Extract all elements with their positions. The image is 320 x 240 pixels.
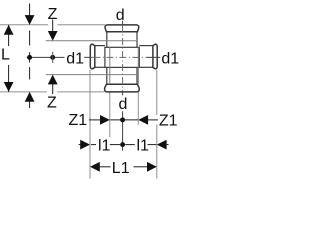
left socket press bead (90, 44, 95, 69)
bottom socket press bead (105, 84, 140, 92)
svg-text:d1: d1 (161, 51, 179, 68)
tick through dot (52, 52, 54, 63)
dimension L arrow down (4, 82, 14, 92)
svg-text:L1: L1 (112, 160, 130, 177)
svg-text:Z: Z (47, 94, 57, 111)
stop line bottom socket (y=74.6) (46, 74, 137, 76)
centerline vertical tick below top d label (122, 21, 124, 25)
bottom socket tube (106, 67, 108, 84)
arrow left to right stop (138, 115, 148, 125)
centerline vertical tick above bottom d label (122, 92, 124, 95)
svg-text:l1: l1 (137, 138, 150, 155)
centerline horizontal solid before right d1 (147, 56, 160, 58)
node dot center reference (50, 55, 55, 60)
stop line right socket inside body (x=138.3) (137, 47, 139, 84)
svg-text:d1: d1 (66, 51, 84, 68)
dimension Z pair line (x=29.6) (29, 4, 31, 18)
arrow left at left end (90, 162, 100, 172)
right socket tube (139, 45, 153, 47)
arrow right to left stop (100, 115, 110, 125)
svg-text:l1: l1 (98, 138, 111, 155)
svg-text:L: L (1, 47, 10, 64)
centerline vertical dashed through fitting (122, 25, 124, 92)
arrow down to top stop line (48, 31, 58, 41)
extension line right stop (x=138.3) (137, 92, 139, 124)
arrow up to bottom stop line (48, 75, 58, 85)
node dot l1 row (120, 142, 125, 147)
dimension Z top leader (52, 20, 54, 34)
dimension l1 row (y=144.6) (79, 144, 83, 146)
extension line left stop (x=109.8) (109, 92, 111, 137)
extension line top end (y=24.8) (0, 24, 48, 26)
left socket tube (95, 45, 105, 47)
right socket press bead (153, 44, 157, 69)
svg-text:d: d (116, 7, 125, 24)
svg-text:d: d (119, 96, 128, 113)
svg-text:Z1: Z1 (69, 112, 88, 129)
arrow up at bottom end (25, 92, 35, 102)
arrow left to right end (157, 140, 167, 150)
extension line right fitting end (x=156.8) upper segment (156, 70, 158, 115)
svg-text:Z1: Z1 (159, 112, 178, 129)
centerline vertical solid through bottom dots (122, 111, 124, 150)
centerline horizontal solid before fitting (84, 56, 89, 58)
node dot Z1 row (120, 117, 125, 122)
extension line right fitting end (x=156.8) lower segment (156, 125, 158, 179)
extension line left fitting end (x=90) (89, 70, 91, 179)
arrow down at top end (25, 15, 35, 25)
node dot left pair (27, 55, 32, 60)
centerline horizontal solid left part (y=57.35) (27, 56, 65, 58)
dimension L line (8, 25, 10, 46)
cross fitting body (105, 47, 139, 67)
top socket press bead (105, 25, 139, 32)
stop line top socket (y=40.8) (46, 40, 137, 42)
top socket tube (106, 31, 108, 47)
svg-text:Z: Z (48, 6, 58, 23)
dimension Z bottom leader (52, 84, 54, 94)
stop line left socket inside body (x=109.8) (109, 47, 111, 84)
centerline horizontal dashed through fitting (93, 56, 147, 58)
dimension Z1 row (y=119.9) (89, 119, 101, 121)
arrow right to left end (80, 140, 90, 150)
arrow right at right end (147, 162, 157, 172)
extension line bottom end (y=91.9) (0, 91, 47, 93)
dimension L arrow up (4, 25, 14, 35)
